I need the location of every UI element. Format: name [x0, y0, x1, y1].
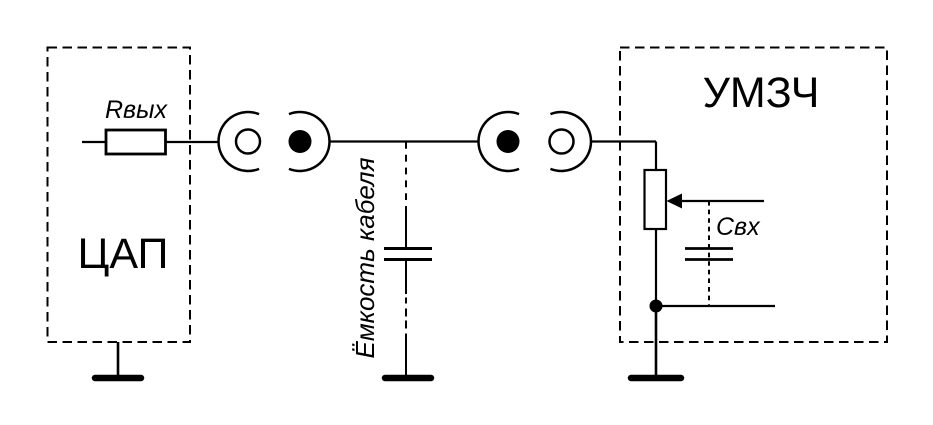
svg-text:Rвых: Rвых	[105, 96, 168, 124]
svg-text:ЦАП: ЦАП	[78, 230, 169, 278]
svg-text:Свх: Свх	[716, 213, 761, 241]
svg-text:УМЗЧ: УМЗЧ	[703, 69, 820, 117]
svg-text:Ёмкость кабеля: Ёмкость кабеля	[350, 157, 380, 358]
